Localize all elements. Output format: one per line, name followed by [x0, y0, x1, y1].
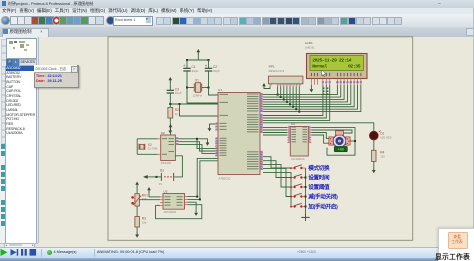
push button SW2: [290, 174, 305, 178]
label button 1: [308, 164, 330, 172]
wire P0.7 bus to LCD D7: [263, 85, 361, 113]
wire LCD RW to U1: [263, 85, 326, 118]
svg-text:+88: +88: [338, 148, 344, 152]
capacitor C2: [205, 60, 220, 88]
wire VCC to C1/C2 tops: [186, 55, 210, 61]
wire U4 out1 to motor coil A: [311, 128, 356, 156]
svg-text:30pF: 30pF: [213, 69, 220, 73]
wire U1 to button 5: [263, 172, 292, 206]
svg-text:U1: U1: [218, 88, 222, 92]
label button 5: [307, 203, 338, 211]
wire U4 out4 to motor coil D: [311, 135, 329, 143]
wire U1 P2.5 to U4 in2: [263, 129, 287, 131]
resistor R4 (LED): [372, 140, 386, 162]
svg-text:设置阈值: 设置阈值: [308, 183, 330, 191]
power terminal VCC (reset section): [169, 77, 173, 83]
wire U1 P2.7 to U4 in4: [263, 134, 287, 136]
wire P0.6 bus to LCD D6: [263, 85, 358, 110]
wire button common rail: [305, 168, 307, 215]
svg-text:U3: U3: [164, 190, 168, 194]
svg-text:U4: U4: [291, 122, 295, 126]
label button 3: [308, 183, 330, 191]
wire U2 CE to U1: [178, 145, 218, 154]
svg-text:1k: 1k: [175, 112, 179, 116]
wire U3 loop to lower pin: [156, 205, 202, 219]
push button SW3: [290, 184, 305, 188]
svg-text:LED-RED: LED-RED: [380, 135, 392, 139]
svg-text:D1: D1: [380, 132, 384, 136]
svg-text:30pF: 30pF: [192, 69, 199, 73]
wire RP1 pin5 to bus: [286, 86, 288, 102]
push button SW5: [290, 203, 305, 207]
wire RP1 pin9 to bus: [298, 86, 300, 111]
label button 4: [308, 193, 338, 201]
svg-text:RESPACK-8: RESPACK-8: [269, 69, 285, 73]
svg-text:设置时间: 设置时间: [308, 174, 330, 182]
svg-text:B1: B1: [160, 169, 164, 173]
wire U2 I/O to U1: [178, 142, 218, 151]
ground (LCD VSS): [310, 85, 314, 93]
svg-text:02:35: 02:35: [348, 64, 361, 70]
capacitor C1: [183, 60, 198, 88]
ground (U3 GND): [188, 202, 199, 216]
stepper motor M1: [329, 131, 350, 148]
pin number dots (LCD RS/RW/E nets): [323, 88, 328, 95]
svg-text:减(手动关闭): 减(手动关闭): [308, 193, 338, 201]
svg-text:2025-11-29 22:14: 2025-11-29 22:14: [312, 57, 351, 63]
svg-text:10uF: 10uF: [175, 91, 182, 95]
wire U1 to button 3: [263, 165, 292, 187]
LED D1 LED-RED: [369, 131, 391, 140]
crystal X1: [186, 78, 210, 97]
wire VCC to U3: [149, 196, 160, 198]
svg-text:ADC0832: ADC0832: [164, 210, 177, 214]
ground (buttons): [301, 214, 309, 221]
driver U4 ULN2003A: [287, 122, 311, 161]
wire U4 out3 to motor coil C: [311, 133, 329, 139]
push button SW4: [290, 193, 305, 197]
sheet border frame: [108, 37, 413, 241]
svg-text:LM016L: LM016L: [305, 45, 316, 49]
motor rpm display: [334, 146, 347, 151]
power terminal VCC above RV1: [135, 182, 139, 194]
wire U4 out2 to motor coil B: [311, 130, 352, 133]
wire U1 P2.4 to U4 in1: [263, 127, 287, 129]
ground (MCU EA pin): [208, 124, 218, 131]
svg-text:DS1302: DS1302: [161, 161, 172, 165]
label button 2: [308, 174, 330, 182]
svg-text:10K: 10K: [142, 197, 147, 201]
wire U2 SCLK to U1: [178, 139, 218, 149]
wire RP1 pin4 to bus: [283, 86, 285, 99]
svg-text:32.768k: 32.768k: [148, 147, 159, 151]
power terminal VCC (RP1 common): [262, 83, 270, 89]
wire RP1 pin8 to bus: [295, 86, 297, 109]
MCU U1 AT89C52: [215, 88, 263, 180]
wire U1 to button 1: [263, 157, 292, 168]
resistor pack RP1 RESPACK-8: [268, 65, 303, 87]
wire U1 to button 4: [263, 168, 292, 196]
push button SW1: [290, 165, 305, 169]
resistor R3 (below RV1): [135, 206, 147, 227]
svg-text:X1: X1: [195, 78, 199, 82]
wire LCD E to U1: [263, 85, 330, 121]
svg-text:220: 220: [380, 154, 385, 158]
svg-text:模式切换: 模式切换: [308, 164, 330, 172]
capacitor C3: [167, 83, 182, 95]
ground (U2 GND): [196, 138, 209, 146]
svg-text:AT89C52: AT89C52: [219, 177, 231, 181]
wire P0.0 bus to LCD D0: [263, 85, 337, 96]
wire P0.4 bus to LCD D4: [263, 85, 351, 106]
wire P0.3 bus to LCD D3: [263, 85, 347, 103]
svg-text:LCD1: LCD1: [305, 41, 313, 45]
wire XTAL2: [187, 88, 218, 104]
svg-text:3V: 3V: [159, 182, 163, 186]
svg-text:12MHz: 12MHz: [193, 94, 203, 98]
svg-text:ULN2003A: ULN2003A: [291, 157, 305, 161]
svg-text:加(手动开启): 加(手动开启): [307, 203, 338, 211]
wire P0.5 bus to LCD D5: [263, 85, 354, 108]
wire U3 DO to U1: [188, 158, 219, 197]
wire RST node: [169, 93, 218, 116]
power terminal VCC above U2: [169, 124, 173, 135]
wire RP1 pin2 to bus: [277, 86, 279, 94]
wire RP1 pin7 to bus: [292, 86, 294, 106]
battery B1 3V backup: [143, 156, 182, 186]
RTC U2 DS1302: [158, 131, 179, 165]
wire U1 P2.6 to U4 in3: [263, 132, 287, 134]
ADC U3 ADC0832: [160, 190, 188, 215]
wire LCD RS to U1: [263, 85, 323, 116]
LCD LCD1 LM016L: [305, 41, 367, 85]
wire U1 P2.3 to LED D1: [263, 123, 374, 131]
power terminal VCC (crystal section): [197, 49, 201, 55]
ground (below R3): [135, 227, 139, 238]
power terminal VCC above U3: [147, 187, 151, 197]
svg-text:U2: U2: [161, 131, 165, 135]
wire RP1 pin6 to bus: [289, 86, 291, 104]
wire U3 CLK to U1: [188, 161, 219, 201]
wire XTAL1: [209, 88, 219, 96]
svg-text:10k: 10k: [142, 220, 147, 224]
potentiometer RV1: [131, 193, 148, 206]
wire U1 to button 2: [263, 161, 292, 178]
wire RV1 wiper to U3: [139, 199, 160, 201]
wire P0.2 bus to LCD D2: [263, 85, 344, 101]
resistor R2: [168, 108, 179, 119]
wire P0.1 bus to LCD D1: [263, 85, 341, 98]
ground (LED): [372, 162, 376, 174]
wire RP1 pin3 to bus: [280, 86, 282, 97]
ground (reset section): [168, 118, 172, 134]
crystal X2 32.768kHz: [137, 139, 158, 155]
